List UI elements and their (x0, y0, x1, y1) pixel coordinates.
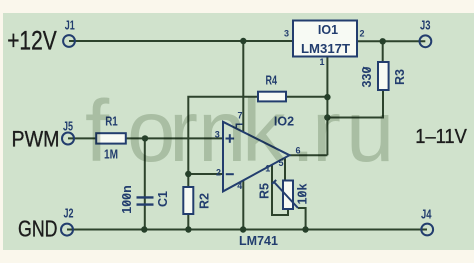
svg-text:100n: 100n (120, 185, 134, 214)
svg-text:R2: R2 (198, 193, 212, 209)
svg-text:LM317T: LM317T (301, 42, 350, 56)
svg-text:LM741: LM741 (239, 234, 278, 248)
svg-text:n: n (198, 83, 246, 180)
svg-text:J4: J4 (421, 208, 432, 222)
svg-text:k: k (242, 83, 286, 180)
svg-text:r: r (312, 83, 341, 180)
svg-text:f: f (85, 83, 110, 180)
svg-text:J5: J5 (63, 120, 73, 134)
svg-text:2: 2 (360, 29, 365, 39)
svg-text:C1: C1 (156, 191, 170, 207)
svg-text:3: 3 (284, 29, 289, 39)
svg-text:PWM: PWM (12, 127, 60, 152)
svg-text:GND: GND (18, 216, 58, 242)
svg-text:J3: J3 (420, 19, 431, 33)
svg-text:J2: J2 (64, 207, 74, 221)
svg-text:r: r (169, 83, 198, 180)
svg-text:4: 4 (237, 181, 242, 191)
svg-text:1–11V: 1–11V (415, 125, 467, 148)
svg-text:R5: R5 (258, 183, 272, 199)
svg-text:1: 1 (319, 57, 324, 67)
svg-text:IO1: IO1 (318, 23, 338, 37)
svg-text:J1: J1 (65, 19, 75, 33)
svg-text:u: u (346, 83, 394, 180)
svg-text:+12V: +12V (7, 25, 57, 55)
svg-text:R3: R3 (393, 69, 407, 85)
